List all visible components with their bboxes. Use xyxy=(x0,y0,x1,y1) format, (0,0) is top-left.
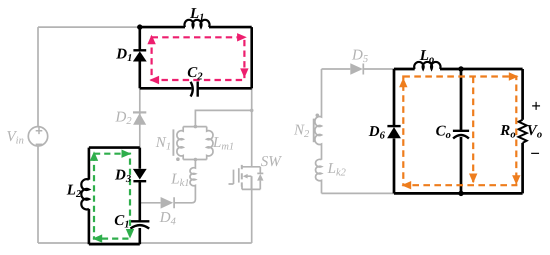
switch SW mosfet xyxy=(229,165,261,190)
resistor Ro xyxy=(519,120,527,143)
wire D2 branch xyxy=(139,88,141,147)
drain stub xyxy=(242,166,260,168)
arrow into channel xyxy=(243,174,248,179)
wire top edge with inductor L1 xyxy=(140,26,252,29)
diode D3 xyxy=(133,169,147,181)
loop current i1 (pink dashed) xyxy=(152,37,245,80)
wire right edge segments xyxy=(139,148,142,245)
wire secondary top to D5 xyxy=(322,68,351,70)
arrow right on top side xyxy=(122,150,132,158)
wire right edge xyxy=(250,27,253,88)
wire bottom edge xyxy=(394,192,523,195)
svg-text:+: + xyxy=(531,97,541,116)
junction node Co bottom xyxy=(458,191,463,196)
wire top edge with inductor Lo xyxy=(394,68,523,71)
arrow down on right side xyxy=(512,175,520,185)
arrow up on left side xyxy=(147,35,155,45)
inductor Lk2 xyxy=(316,159,322,193)
wire loop bottom edge xyxy=(183,159,207,161)
winding N2 xyxy=(315,69,322,160)
wire left edge with inductor L2 xyxy=(88,148,91,245)
source Vin xyxy=(28,127,47,146)
arrow up on left side xyxy=(399,78,407,88)
gate lead xyxy=(229,170,234,184)
svg-text:SW: SW xyxy=(261,154,283,170)
wire top-left horizontal xyxy=(38,26,140,28)
wire top edge xyxy=(89,146,140,149)
body diode branch xyxy=(259,167,261,190)
source stub and arrow stub xyxy=(242,176,251,189)
wire left vertical lower xyxy=(37,146,39,243)
winding Lm1 xyxy=(207,127,213,160)
wire bottom edge xyxy=(140,87,252,90)
arrow left on bottom side xyxy=(93,234,103,242)
arrow left on bottom side xyxy=(402,181,412,189)
diode D2 xyxy=(133,112,146,124)
core bar N1 xyxy=(172,129,174,155)
junction transformer top xyxy=(194,125,198,129)
loop current i2 (green dashed) xyxy=(94,154,130,239)
core bar N2 xyxy=(313,119,315,143)
polarity dot N2 xyxy=(316,114,320,118)
body diode xyxy=(257,172,263,174)
wire bottom edge xyxy=(89,243,140,246)
arrow left on bottom side xyxy=(149,76,159,84)
junction transformer bottom xyxy=(194,158,198,162)
loop current io (orange dashed) xyxy=(403,77,516,186)
wire left edge segments xyxy=(393,69,396,193)
channel segments xyxy=(241,165,243,187)
wire left vertical upper xyxy=(37,27,39,127)
wire right edge with resistor Ro xyxy=(521,69,524,193)
transformer primary loop N1 / Lm1 xyxy=(173,127,213,160)
bottom rail of switch xyxy=(242,188,260,190)
arrow down on right side xyxy=(126,229,134,239)
wire capacitor Co branch xyxy=(460,69,463,193)
arrow right on top side xyxy=(509,72,519,80)
junction node at top-left of box xyxy=(137,24,142,29)
gate bar xyxy=(238,168,240,182)
arrow right on top side xyxy=(237,33,247,41)
arrow down on right side xyxy=(240,68,248,78)
diode D4 xyxy=(140,197,192,209)
diode D6 xyxy=(387,126,401,138)
capacitor Co xyxy=(453,131,469,139)
wire loop top edge xyxy=(183,126,207,128)
wire D5 to output box xyxy=(364,68,394,70)
svg-text:−: − xyxy=(530,144,540,163)
inductor Lo xyxy=(414,62,440,69)
diode D5 xyxy=(350,63,363,75)
capacitor C1 xyxy=(130,221,149,228)
wire secondary bottom xyxy=(322,192,395,194)
wire top box right edge continuation to switch xyxy=(251,88,253,167)
winding N1 xyxy=(177,127,183,160)
polarity dot N1 xyxy=(176,157,180,161)
diode D1 xyxy=(133,50,147,61)
arrow down on middle branch xyxy=(469,174,477,184)
wire switch source down xyxy=(251,176,253,243)
arrow up on left side xyxy=(90,151,98,161)
inductor L1 xyxy=(185,20,210,27)
inductor L2 xyxy=(81,179,89,209)
wire bottom rail xyxy=(38,242,252,244)
capacitor C2 xyxy=(191,82,198,97)
wire transformer top interconnect xyxy=(195,110,251,126)
inductor Lk1 xyxy=(190,160,195,203)
wire left edge xyxy=(139,27,142,88)
junction node Co top xyxy=(458,66,463,71)
junction at switch drain line xyxy=(250,109,254,113)
